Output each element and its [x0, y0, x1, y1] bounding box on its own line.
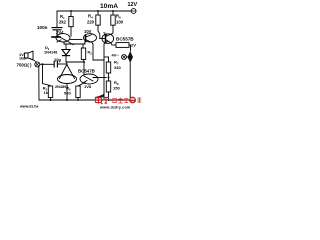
watermark red small chars [113, 98, 129, 104]
svg-text:www.dz.tw: www.dz.tw [19, 105, 38, 109]
svg-text:750Ω( ): 750Ω( ) [17, 63, 33, 68]
svg-text:4V~: 4V~ [112, 52, 120, 57]
svg-text:1k: 1k [44, 90, 49, 95]
watermark red char 1 [96, 96, 110, 104]
svg-text:10V: 10V [84, 29, 92, 34]
wire apex lead [66, 62, 68, 65]
svg-text:220: 220 [87, 20, 95, 25]
wire T3 left leg down [103, 44, 105, 93]
wire input down [38, 67, 40, 100]
resistor R4 220 [97, 11, 99, 15]
watermark red char 2 [103, 97, 109, 103]
wire rail drop to C1 [56, 11, 58, 27]
svg-text:R3: R3 [88, 51, 93, 56]
wire R4 to T3 [100, 38, 106, 40]
wire C2 to apex [58, 63, 67, 65]
wire T5 collector to R column [97, 77, 107, 79]
wire collector bus node B [64, 43, 85, 45]
wire T2 legs [85, 40, 94, 48]
svg-text:1N4148: 1N4148 [44, 51, 57, 55]
wire T1 to T2 base [71, 39, 83, 41]
svg-text:10mA: 10mA [100, 3, 118, 10]
wire input to C2 [40, 63, 54, 65]
wire T2 right leg down [93, 48, 104, 60]
svg-text:12V: 12V [128, 2, 138, 8]
resistor R1 2k2 [70, 11, 72, 17]
transistor T1 base bar [52, 36, 60, 38]
diode D1 1N4148 [65, 44, 67, 49]
transistor T2 [85, 35, 87, 42]
resistor R8 horizontal [116, 43, 129, 48]
svg-text:BC547B: BC547B [78, 69, 95, 74]
speaker cone BZ [60, 65, 75, 79]
resistor R6 100 [112, 11, 114, 15]
svg-text:www.dzdiy.com: www.dzdiy.com [99, 105, 130, 109]
svg-text:100: 100 [116, 20, 124, 25]
watermark logo [129, 97, 136, 104]
wire R8 down to C3 [130, 45, 132, 51]
wire T3 leg to R7 top [104, 56, 109, 58]
wire top supply rail [57, 10, 131, 12]
svg-text:1kΩ⌐: 1kΩ⌐ [19, 56, 28, 60]
resistor R3 220 [82, 44, 84, 48]
svg-text:2V4: 2V4 [56, 30, 64, 35]
transistor T5 BC547B [80, 74, 98, 84]
watermark right marks [137, 98, 141, 103]
svg-text:150: 150 [113, 86, 120, 91]
svg-text:T2: T2 [103, 32, 108, 38]
wire C1 to T1 base [56, 30, 58, 36]
svg-text:1V8: 1V8 [84, 84, 92, 89]
svg-text:100n: 100n [37, 25, 48, 30]
microphone icon [25, 51, 34, 60]
wire node A horizontal [66, 61, 84, 63]
resistor R9 150 [106, 81, 110, 92]
capacitor C2 10u plates [54, 61, 57, 67]
resistor R7 330 [108, 57, 110, 62]
svg-text:2k2: 2k2 [59, 20, 67, 25]
capacitor C3 polarized [128, 51, 133, 63]
wire ground rail [39, 99, 130, 101]
wire T3 right to R8 [113, 44, 116, 46]
resistor R2 1k [43, 64, 51, 86]
svg-text:560: 560 [64, 91, 71, 96]
node junction input [41, 63, 43, 65]
transistor T1 [56, 34, 70, 42]
supply terminal 12V [131, 9, 136, 14]
resistor R5 560 [76, 86, 80, 98]
wedge mark [95, 94, 105, 98]
wire T5 emitter [78, 83, 85, 87]
wire cone to ground rail [66, 84, 68, 101]
transistor T3 BC557B [105, 35, 107, 42]
wire T1 legs [64, 42, 75, 45]
wire C3 to rail [129, 63, 131, 100]
svg-text:BC557B: BC557B [116, 37, 134, 42]
output terminal [122, 55, 127, 60]
svg-text:2V: 2V [131, 43, 136, 48]
svg-text:330: 330 [114, 65, 121, 70]
capacitor C1 100n [52, 28, 62, 30]
input terminal TB1 [35, 62, 40, 67]
wire T5 base [83, 62, 85, 74]
svg-text:10µ: 10µ [54, 58, 62, 63]
